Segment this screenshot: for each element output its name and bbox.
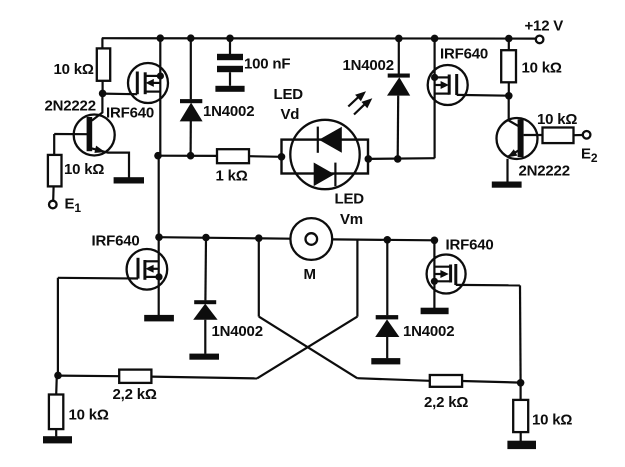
- junction: node A: [154, 152, 162, 160]
- junction: D2 on rail: [395, 35, 403, 43]
- wire: diagonal node B side to R6: [257, 317, 357, 379]
- terminal: E2 input: [583, 131, 591, 139]
- junction: T3 drain: [155, 233, 163, 241]
- MOSFET T3 IRF640 (bottom-left): [58, 237, 167, 315]
- resistor R2 10 kOhm (E1 input series): [48, 155, 62, 201]
- transistor Q2 2N2222 (right, mirrored): [497, 118, 543, 182]
- svg-text:Vd: Vd: [281, 106, 300, 123]
- motor M: [290, 218, 332, 260]
- resistor R8 2,2 kOhm (right): [430, 375, 462, 387]
- ground (Q2 emitter): [492, 182, 522, 188]
- wire: node A vertical to T3 drain: [158, 156, 160, 238]
- MOSFET T4 IRF640 (bottom-right, mirrored): [427, 240, 520, 308]
- svg-text:IRF640: IRF640: [446, 236, 494, 253]
- svg-text:1N4002: 1N4002: [343, 57, 394, 74]
- wire: Q1 base to R2/E1: [53, 134, 55, 155]
- junction: T4 gate / R8 / R9: [517, 379, 525, 387]
- light emission arrow 2: [354, 98, 372, 114]
- light emission arrow 1: [348, 91, 366, 106]
- junction: T4 source stub: [431, 278, 438, 285]
- ground (T3 source): [144, 315, 174, 322]
- MOSFET T2 IRF640 (top-right, mirrored): [428, 38, 509, 158]
- junction: T3 gate / R6 / R7: [54, 372, 62, 380]
- svg-text:1N4002: 1N4002: [203, 103, 254, 120]
- junction: node R1/Q1 collector/T1 gate: [99, 90, 107, 98]
- wire: left horizontal to R6: [151, 377, 257, 379]
- MOSFET T1 IRF640 (top-left): [103, 63, 168, 103]
- svg-text:+12 V: +12 V: [525, 18, 564, 35]
- capacitor C1 100 nF: [217, 38, 243, 86]
- junction: D1 on rail: [187, 34, 195, 42]
- wire: +12V supply rail: [102, 37, 536, 40]
- junction: D4 cathode: [384, 236, 392, 244]
- wire: LED box to T2 source (node B): [368, 157, 434, 160]
- junction: T2 drain stub: [431, 74, 438, 81]
- terminal: +12V input: [536, 36, 544, 44]
- junction: cross wire left drop: [255, 234, 263, 242]
- wire: R8 to T4 gate node: [462, 381, 520, 383]
- ground (D4 anode): [371, 358, 400, 364]
- diode D1 1N4002 (left freewheel to rail): [180, 38, 203, 156]
- junction: D3 cathode: [202, 234, 210, 242]
- terminal: E1 input: [49, 201, 57, 209]
- junction: T2 drain on rail: [431, 35, 439, 43]
- resistor R9 10 kOhm (bottom-right pulldown): [513, 383, 528, 441]
- resistor R1 10 kOhm (top-left gate pull-up): [97, 38, 110, 93]
- svg-text:2N2222: 2N2222: [519, 163, 570, 180]
- wire: T1 drain-source vertical: [159, 38, 161, 156]
- diode D2 1N4002 (right freewheel to rail): [387, 38, 410, 158]
- ground (Q1 emitter): [114, 177, 144, 183]
- wire: cross-coupling left vertical: [258, 238, 260, 316]
- LED LED1 (points left, on top branch): [317, 127, 319, 153]
- junction: LED box right: [365, 155, 373, 163]
- resistor R7 10 kOhm (bottom-left pulldown): [49, 375, 63, 436]
- wire: T3 gate riser: [57, 278, 59, 376]
- wire: R3 to LED pair: [249, 155, 282, 158]
- svg-text:1 kΩ: 1 kΩ: [216, 167, 248, 184]
- ground (T4 source): [421, 308, 449, 315]
- svg-text:100 nF: 100 nF: [244, 55, 290, 72]
- svg-text:IRF640: IRF640: [92, 232, 140, 249]
- svg-text:2,2 kΩ: 2,2 kΩ: [113, 386, 157, 403]
- junction: T4 drain: [431, 237, 439, 245]
- svg-text:IRF640: IRF640: [106, 104, 154, 121]
- svg-text:10 kΩ: 10 kΩ: [532, 411, 572, 428]
- junction: T1 drain stub: [157, 72, 164, 79]
- junction: T3 source stub: [155, 273, 162, 280]
- svg-text:1N4002: 1N4002: [403, 323, 454, 340]
- svg-text:1N4002: 1N4002: [212, 323, 263, 340]
- svg-text:IRF640: IRF640: [440, 45, 488, 62]
- wire: node to Q2 collector: [508, 96, 510, 121]
- junction: C1 on rail: [226, 35, 234, 43]
- junction: D2 anode on node B wire: [394, 155, 402, 163]
- diode D4 1N4002 (bottom-right freewheel): [375, 240, 399, 358]
- wire: motor left branch: [159, 237, 291, 239]
- junction: T1 drain on rail: [157, 34, 165, 42]
- LED LED2 (points right, on bottom branch): [314, 163, 335, 187]
- transistor Q1 2N2222 (left): [54, 93, 129, 177]
- wire: motor right branch: [332, 238, 434, 241]
- wire: cross-coupling right vertical: [356, 240, 358, 317]
- ground (D3 anode): [189, 354, 219, 360]
- LED pair indicator (anti-parallel): [282, 120, 369, 189]
- svg-text:10 kΩ: 10 kΩ: [522, 60, 562, 77]
- wire: diagonal node A side to R8: [259, 317, 357, 379]
- diode D3 1N4002 (bottom-left freewheel): [193, 238, 217, 354]
- resistor R4 10 kOhm (top-right pull-up): [501, 39, 516, 96]
- ground (R7): [43, 436, 72, 443]
- svg-text:10 kΩ: 10 kΩ: [537, 111, 577, 128]
- svg-text:2,2 kΩ: 2,2 kΩ: [424, 394, 468, 411]
- resistor R3 1 kOhm: [217, 149, 249, 163]
- junction: LED box left: [278, 153, 286, 161]
- junction: D1 anode on node A wire: [187, 152, 195, 160]
- wire: node A horizontal to R3: [158, 155, 217, 157]
- svg-text:Vm: Vm: [340, 211, 363, 228]
- svg-text:LED: LED: [274, 86, 304, 103]
- ground (R9): [507, 441, 536, 449]
- svg-text:10 kΩ: 10 kΩ: [69, 406, 109, 423]
- wire: right horizontal to R8: [357, 378, 430, 381]
- ground (C1): [215, 86, 244, 92]
- svg-text:LED: LED: [335, 191, 365, 208]
- svg-text:10 kΩ: 10 kΩ: [64, 161, 104, 178]
- svg-text:2N2222: 2N2222: [45, 97, 96, 114]
- svg-text:10 kΩ: 10 kΩ: [54, 61, 94, 78]
- junction: R4 / T2 gate / Q2 collector: [505, 92, 513, 100]
- junction: R4 on rail: [505, 35, 513, 43]
- resistor R6 2,2 kOhm (left): [119, 370, 151, 383]
- resistor R5 10 kOhm (Q2 base to E2): [543, 128, 583, 144]
- svg-text:M: M: [304, 266, 316, 283]
- wire: T4 gate riser: [519, 285, 522, 382]
- wire: R6 to T3 gate node: [58, 375, 119, 378]
